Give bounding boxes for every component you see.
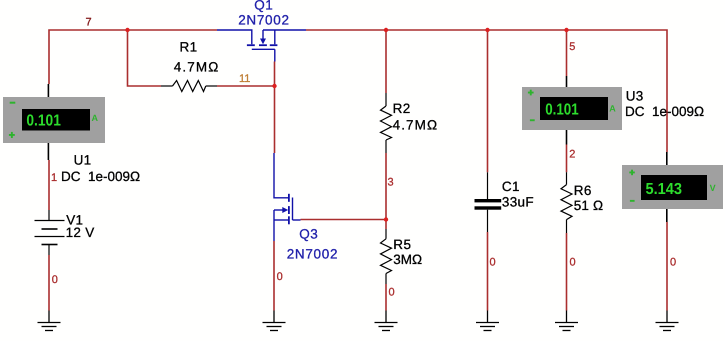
junction dot: node 11 bbox=[272, 84, 276, 88]
wire: rail to R2 top bbox=[385, 30, 387, 93]
label R6 bbox=[574, 183, 592, 198]
svg-text:R1: R1 bbox=[180, 39, 198, 54]
value label 4.7MΩ (R1) bbox=[174, 59, 220, 74]
ground (voltmeter branch) bbox=[656, 311, 679, 331]
svg-text:51 Ω: 51 Ω bbox=[574, 198, 604, 213]
wire: C1 bottom to ground (node 0) bbox=[487, 232, 489, 311]
wire: R6 bottom to ground (node 0) bbox=[566, 233, 568, 311]
ammeter U1 bbox=[3, 84, 105, 160]
value label 2N7002 (Q3) bbox=[287, 247, 339, 262]
svg-text:33uF: 33uF bbox=[502, 194, 534, 209]
capacitor C1 bbox=[475, 172, 502, 232]
resistor R5 bbox=[381, 229, 392, 284]
transistor Q1 (2N7002) bbox=[217, 30, 306, 62]
svg-text:Q3: Q3 bbox=[299, 227, 318, 242]
value label 33uF (C1) bbox=[502, 194, 534, 209]
junction dot: rail / R2 branch bbox=[384, 28, 388, 32]
node 0 label (R5) bbox=[389, 287, 395, 299]
svg-text:A: A bbox=[609, 104, 616, 114]
value label DC 1e-009Ω (U3) bbox=[625, 104, 704, 119]
ground (Q3 source) bbox=[263, 311, 286, 331]
label C1 bbox=[502, 179, 520, 194]
svg-text:4.7MΩ: 4.7MΩ bbox=[393, 117, 439, 132]
svg-text:7: 7 bbox=[86, 16, 92, 28]
svg-text:R6: R6 bbox=[574, 183, 592, 198]
transistor Q3 (2N7002) bbox=[274, 153, 301, 241]
label U3 bbox=[626, 89, 644, 104]
node 1 label bbox=[51, 172, 57, 184]
svg-text:0: 0 bbox=[52, 274, 58, 286]
wire: top rail left segment (node 7) bbox=[49, 30, 217, 84]
label R5 bbox=[393, 237, 411, 252]
node 0 label (voltmeter) bbox=[670, 257, 676, 269]
svg-text:5: 5 bbox=[569, 41, 575, 53]
ground (R6 branch) bbox=[555, 311, 578, 331]
wire: U3 bottom to R6 top (node 2) bbox=[566, 145, 568, 173]
wire: R1 right to node 11 bbox=[217, 85, 275, 87]
label U1 bbox=[74, 153, 92, 168]
node 11 label bbox=[239, 73, 250, 85]
ammeter U3 bbox=[522, 76, 622, 145]
junction dot: node 3 bbox=[384, 217, 388, 221]
value label 12 V (V1) bbox=[66, 225, 95, 240]
node 0 label (C1) bbox=[490, 257, 496, 269]
node 3 label bbox=[388, 177, 394, 189]
svg-text:V: V bbox=[710, 183, 716, 193]
wire: rail to U3 top (node 5) bbox=[566, 30, 568, 76]
wire: U1 bottom to battery V1 top (node 1) bbox=[48, 160, 50, 210]
label Q3 bbox=[299, 227, 318, 242]
svg-text:0: 0 bbox=[490, 257, 496, 269]
svg-text:5.143: 5.143 bbox=[646, 181, 683, 198]
svg-text:2N7002: 2N7002 bbox=[238, 12, 290, 27]
svg-text:0: 0 bbox=[670, 257, 676, 269]
voltmeter (5.143) bbox=[622, 152, 723, 222]
value label 3MΩ (R5) bbox=[393, 252, 422, 267]
wire: R5 bottom to ground (node 0) bbox=[385, 284, 387, 311]
node 2 label bbox=[569, 149, 575, 161]
ground (R5 branch) bbox=[375, 311, 398, 331]
svg-text:12 V: 12 V bbox=[66, 225, 95, 240]
svg-text:0: 0 bbox=[570, 257, 576, 269]
wire: top rail right segment (node 5 rail) bbox=[306, 30, 667, 152]
resistor R1 bbox=[161, 81, 217, 92]
node 0 label (Q3) bbox=[277, 271, 283, 283]
svg-text:2: 2 bbox=[569, 149, 575, 161]
ground (C1 branch) bbox=[476, 311, 499, 331]
wire: voltmeter bottom to ground (node 0) bbox=[666, 222, 668, 311]
wire: Q3 source to ground (node 0) bbox=[273, 241, 275, 311]
svg-text:Q1: Q1 bbox=[254, 0, 273, 12]
svg-text:3: 3 bbox=[388, 177, 394, 189]
svg-text:R5: R5 bbox=[393, 237, 411, 252]
value label 4.7MΩ (R2) bbox=[393, 117, 439, 132]
svg-text:11: 11 bbox=[239, 73, 250, 85]
svg-text:2N7002: 2N7002 bbox=[287, 247, 339, 262]
label R1 bbox=[180, 39, 198, 54]
svg-text:4.7MΩ: 4.7MΩ bbox=[174, 59, 220, 74]
node 0 label (R6) bbox=[570, 257, 576, 269]
resistor R6 bbox=[561, 172, 572, 233]
wire: rail drop to R1 left bbox=[128, 30, 162, 86]
junction dot: rail / R1 branch bbox=[125, 28, 129, 32]
battery V1 bbox=[35, 210, 65, 255]
junction dot: rail / U3 branch (node 5) bbox=[564, 28, 568, 32]
svg-text:A: A bbox=[92, 113, 99, 123]
svg-text:U3: U3 bbox=[626, 89, 644, 104]
label R2 bbox=[393, 101, 411, 116]
svg-text:0: 0 bbox=[389, 287, 395, 299]
label V1 bbox=[66, 212, 83, 227]
wire: battery V1 bottom to ground (node 0) bbox=[48, 255, 50, 311]
svg-text:DC 1e-009Ω: DC 1e-009Ω bbox=[61, 169, 140, 184]
wire: Q3 gate to node 3 bbox=[301, 219, 387, 221]
svg-text:1: 1 bbox=[51, 172, 57, 184]
svg-text:0: 0 bbox=[277, 271, 283, 283]
label Q1 bbox=[254, 0, 273, 12]
resistor R2 bbox=[381, 93, 392, 153]
value label 2N7002 (Q1) bbox=[238, 12, 290, 27]
node 7 label bbox=[86, 16, 92, 28]
wire: R2 bottom to node 3 to R5 top bbox=[385, 153, 387, 229]
wire: rail to C1 top bbox=[487, 30, 489, 172]
value label DC 1e-009Ω (U1) bbox=[61, 169, 140, 184]
svg-text:U1: U1 bbox=[74, 153, 92, 168]
wire: Q1 gate to node 11 to Q3 drain bbox=[274, 62, 276, 154]
svg-text:DC 1e-009Ω: DC 1e-009Ω bbox=[625, 104, 704, 119]
node 0 label (V1) bbox=[52, 274, 58, 286]
junction dot: rail / C1 branch bbox=[485, 28, 489, 32]
svg-text:3MΩ: 3MΩ bbox=[393, 252, 422, 267]
transistor Q1 body arrow bbox=[260, 39, 266, 45]
transistor Q3 body arrow bbox=[282, 207, 288, 213]
ground (V1 branch) bbox=[38, 311, 61, 331]
svg-text:0.101: 0.101 bbox=[26, 112, 61, 129]
svg-text:R2: R2 bbox=[393, 101, 411, 116]
node 5 label bbox=[569, 41, 575, 53]
svg-text:0.101: 0.101 bbox=[545, 102, 579, 119]
svg-text:C1: C1 bbox=[502, 179, 520, 194]
value label 51 Ω (R6) bbox=[574, 198, 604, 213]
